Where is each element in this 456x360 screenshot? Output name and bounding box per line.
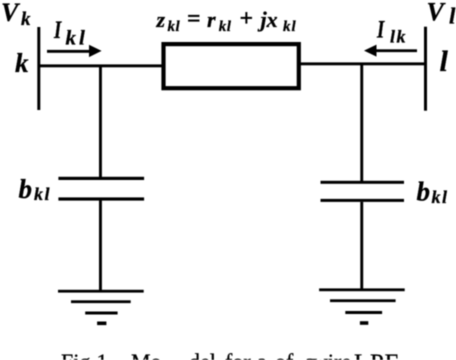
svg-text:V: V [427,0,447,26]
capacitor bkl left top plate [58,177,144,180]
svg-text:k: k [15,48,29,78]
current label Ikl [53,15,88,49]
svg-text:kl: kl [66,26,88,50]
svg-text:b: b [19,174,33,204]
svg-text:kl: kl [34,184,51,204]
svg-text:+: + [240,6,254,32]
wire capacitor left to ground [99,201,102,291]
current arrow Ikl [47,45,102,57]
capacitor bkl right bottom plate [321,199,405,202]
svg-text:l: l [440,45,449,78]
node label Vl [427,0,456,28]
svg-text:r: r [207,7,216,32]
svg-text:k: k [21,9,31,30]
current arrow Ilk [364,45,417,57]
svg-text:kl: kl [219,19,232,35]
shunt label bkl left [19,174,52,204]
svg-text:I: I [376,15,385,43]
wire capacitor right to ground [360,202,363,289]
svg-text:for: for [225,349,251,360]
bus bar l [424,27,427,111]
ground left [58,290,144,325]
svg-text:LPF: LPF [354,349,399,360]
svg-text:kl: kl [168,19,181,35]
wire impedance box to bus l [299,62,426,65]
impedance value label zkl = rkl + jxkl [156,6,297,35]
node label Vk [1,0,31,30]
svg-text:of: of [275,349,294,360]
shunt label bkl right [417,177,449,208]
svg-text:1.: 1. [97,349,114,360]
capacitor bkl left bottom plate [58,197,144,200]
svg-text:l: l [449,3,456,28]
wire bus k to impedance box [39,64,162,67]
svg-text:b: b [417,177,431,207]
svg-text:kl: kl [283,19,297,35]
impedance box zkl [164,44,299,88]
svg-text:jx: jx [258,7,278,32]
svg-text:z: z [156,7,166,32]
bus bar k [37,27,40,110]
svg-text:I: I [53,15,62,43]
svg-text:=: = [187,6,201,32]
svg-text:a: a [257,349,267,360]
svg-text:V: V [1,0,21,27]
svg-text:del: del [189,349,216,360]
caption Fig. 1. Model ... LPF [61,349,399,360]
current label Ilk [376,15,407,47]
wire shunt l down [360,65,363,181]
svg-text:kl: kl [432,187,449,207]
svg-text:Mo: Mo [131,349,162,360]
svg-text:lk: lk [390,27,407,47]
svg-text:Fig.: Fig. [61,349,96,360]
capacitor bkl right top plate [321,181,405,184]
svg-text:wire: wire [312,349,351,360]
ground right [319,288,405,324]
wire shunt k down [99,66,102,177]
